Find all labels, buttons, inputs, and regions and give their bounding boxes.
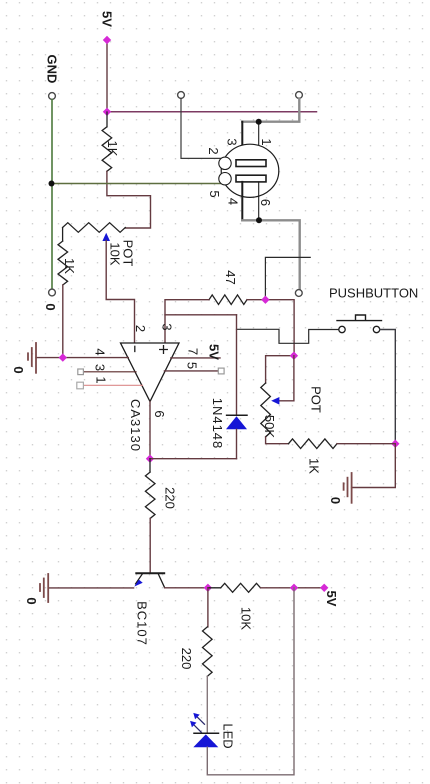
potentiometer 50K body	[261, 383, 271, 437]
node black dot bottom bus	[256, 217, 262, 223]
LED D2	[194, 732, 219, 734]
node junction output	[146, 455, 154, 463]
svg-text:1K: 1K	[62, 258, 77, 274]
svg-text:CA3130: CA3130	[128, 399, 143, 452]
svg-text:0: 0	[328, 497, 343, 504]
ground G3	[47, 574, 49, 602]
wire gray bus bottom	[242, 220, 299, 289]
pot 50K wiper arrow	[271, 397, 279, 405]
wire op-amp pin7	[171, 357, 220, 359]
wire can pin4	[241, 182, 243, 220]
wire 5V vertical	[106, 40, 108, 112]
svg-text:1: 1	[94, 376, 109, 383]
node black dot top bus	[256, 119, 262, 125]
svg-text:6: 6	[258, 199, 273, 206]
op-amp pin3 stub	[84, 371, 137, 373]
label 5V bold at pin7	[207, 344, 222, 360]
wire R1 bottom to pot right	[107, 171, 151, 228]
svg-text:3: 3	[225, 138, 240, 145]
wire pin3 node to diode top	[165, 314, 237, 316]
svg-text:50K: 50K	[262, 415, 277, 438]
can plate lower	[236, 175, 266, 182]
wire 50K wiper from junction2	[280, 356, 294, 401]
op-amp U1 CA3130 triangle	[121, 343, 180, 402]
wire output to diode bottom	[150, 458, 237, 460]
wire GND horizontal olive to can pin 5	[52, 183, 222, 185]
diode D1 1N4148	[236, 315, 238, 415]
can small circle upper	[219, 157, 231, 169]
node junction 5V rail	[103, 108, 111, 116]
svg-text:5V: 5V	[100, 11, 115, 27]
svg-text:10K: 10K	[108, 242, 123, 265]
svg-text:BC107: BC107	[135, 601, 150, 646]
svg-text:GND: GND	[45, 55, 60, 84]
wire staircase to pushbutton left	[237, 329, 340, 343]
node 5V power pin right	[320, 584, 328, 592]
svg-text:5: 5	[207, 190, 222, 197]
wire can pin3	[241, 122, 243, 160]
wire pushbutton right down	[380, 330, 396, 444]
node junction2	[290, 352, 298, 360]
node junction 47 right	[261, 296, 269, 304]
can pin label 5	[207, 190, 222, 197]
wire collector to junction4	[165, 587, 208, 589]
svg-text:POT: POT	[309, 386, 324, 413]
ground G1	[35, 343, 37, 373]
svg-text:PUSHBUTTON: PUSHBUTTON	[329, 286, 418, 301]
svg-text:POT: POT	[121, 240, 136, 267]
wire gray bus top	[242, 98, 299, 121]
pushbutton contact right	[373, 326, 379, 332]
wire LED to bottom rail	[207, 588, 294, 775]
resistor R1 1K vertical	[102, 112, 112, 171]
svg-text:1: 1	[259, 138, 274, 145]
node junction pushbutton bottom	[391, 440, 399, 448]
svg-text:1K: 1K	[105, 141, 120, 157]
node junction pin4	[59, 353, 67, 361]
wire pot10K wiper to opamp pin2	[106, 241, 134, 343]
resistor R2 1K vertical	[58, 228, 68, 286]
terminal 0 bottom-left circle	[49, 289, 56, 296]
op-amp pin2 label	[133, 325, 148, 332]
svg-text:5V: 5V	[207, 344, 222, 360]
svg-text:3: 3	[160, 323, 175, 330]
svg-text:4: 4	[226, 198, 241, 205]
node 5V power pin dot	[103, 36, 111, 44]
wire R2 bottom to junction	[62, 285, 64, 358]
terminal right-mid circle	[295, 290, 302, 297]
wire op-amp pin6 output	[149, 402, 151, 459]
svg-text:0: 0	[43, 303, 58, 310]
can plate upper	[236, 160, 266, 167]
wire junction3 down to ground G2	[352, 444, 396, 488]
wire junction2 to 50K top	[266, 356, 294, 383]
resistor 1K bottom-right	[289, 439, 338, 449]
label CA3130	[128, 399, 143, 452]
svg-text:3: 3	[93, 364, 108, 371]
terminal GND top circle	[45, 55, 60, 84]
wire emitter to ground G3	[48, 587, 133, 589]
pushbutton contact left	[339, 326, 345, 332]
opto can body circle	[221, 144, 279, 197]
op-amp minus sign	[134, 346, 136, 351]
svg-text:2: 2	[133, 325, 148, 332]
svg-text:10K: 10K	[239, 607, 254, 630]
svg-text:1N4148: 1N4148	[210, 398, 225, 450]
can pin label 4	[226, 198, 241, 205]
can pin label 1	[259, 138, 274, 145]
pushbutton actuator bar	[337, 315, 382, 321]
can pin label 3	[225, 138, 240, 145]
can small circle lower	[219, 173, 231, 185]
wire junction4 down to 220 LED resistor	[207, 588, 209, 627]
wire 5V rail horizontal	[107, 111, 317, 113]
svg-text:6: 6	[152, 410, 167, 417]
wire 220 to LED	[206, 676, 208, 733]
node junction4 collector	[204, 584, 212, 592]
transistor emitter arrow	[134, 580, 143, 587]
potentiometer POT 10K body	[63, 223, 126, 233]
LED arrows	[196, 716, 204, 724]
wire stub up from 47 junction	[265, 257, 310, 299]
wire 220 to transistor base	[149, 518, 151, 573]
ground G2	[351, 473, 353, 503]
svg-text:1K: 1K	[307, 458, 322, 474]
wire 50K bottom to 1K	[266, 437, 289, 444]
wire can pin6	[258, 182, 260, 220]
svg-text:0: 0	[24, 597, 39, 604]
op-amp pin1 stub	[84, 384, 143, 386]
wire GND vertical green	[51, 99, 53, 289]
svg-text:5: 5	[185, 362, 200, 369]
can pin label 6	[258, 199, 273, 206]
terminal top-mid circle	[178, 92, 185, 99]
wire terminal to can pin2	[181, 98, 222, 158]
svg-text:220: 220	[163, 487, 178, 509]
wire can pin1	[258, 122, 260, 160]
wire op-amp pin5	[164, 370, 218, 372]
svg-text:7: 7	[186, 348, 201, 355]
resistor 220 LED vertical	[203, 627, 213, 676]
node black dot GND	[49, 181, 55, 187]
svg-text:2: 2	[206, 147, 221, 154]
pot 10K wiper arrow	[102, 233, 110, 241]
can pin label 2	[206, 147, 221, 154]
svg-text:0: 0	[11, 366, 26, 373]
svg-text:47: 47	[223, 270, 238, 284]
resistor R3 47 horizontal	[209, 295, 247, 305]
svg-text:4: 4	[93, 348, 108, 355]
wire 47 right to junction and down-right	[247, 300, 294, 356]
wire 47 left to opamp pin3	[165, 300, 209, 343]
resistor 220 upper vertical	[145, 459, 155, 519]
svg-text:LED: LED	[221, 723, 236, 748]
transistor Q1 BC107	[136, 572, 164, 574]
node junction5	[290, 584, 298, 592]
op-amp pin3 label	[160, 323, 175, 330]
svg-text:220: 220	[179, 648, 194, 670]
svg-text:5V: 5V	[324, 591, 339, 607]
wire 1K right to junction3	[337, 443, 395, 445]
wire op-amp pin4	[36, 357, 128, 359]
resistor 10K horizontal	[208, 583, 261, 592]
wire 10K right to 5V pin	[261, 587, 325, 589]
power pin 5V top label	[100, 11, 115, 27]
terminal top-right circle	[296, 92, 303, 99]
op-amp plus sign	[160, 346, 168, 354]
